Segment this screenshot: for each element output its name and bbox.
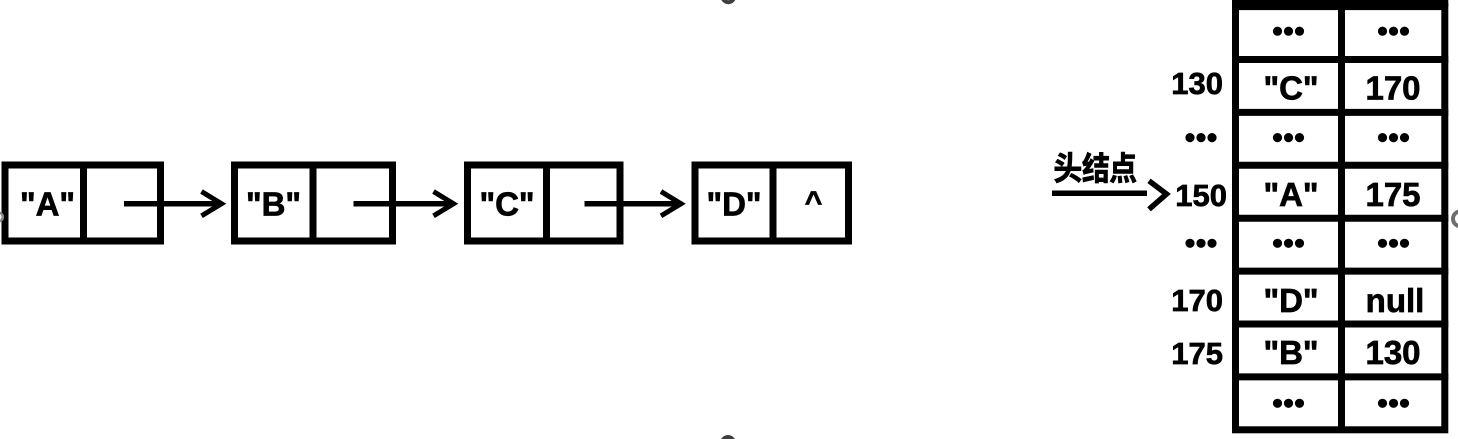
- table row3 dots col1: [1273, 133, 1304, 142]
- svg-text:130: 130: [1365, 334, 1420, 371]
- table row5 dots col2: [1378, 239, 1409, 248]
- cropped glyph left edge: [0, 213, 3, 222]
- table row8 dots col2: [1378, 399, 1409, 408]
- svg-text:^: ^: [805, 186, 823, 219]
- table row3 dots col2: [1378, 133, 1409, 142]
- wire arrow 3: [585, 192, 682, 216]
- head pointer label 头结点: [1054, 152, 1137, 184]
- svg-text:"A": "A": [1263, 176, 1318, 213]
- svg-text:null: null: [1366, 282, 1425, 319]
- svg-text:130: 130: [1171, 66, 1223, 101]
- svg-text:170: 170: [1365, 70, 1420, 107]
- wire arrow 1: [124, 192, 222, 216]
- svg-text:170: 170: [1171, 283, 1223, 318]
- table row8 dots col1: [1273, 399, 1304, 408]
- svg-text:"B": "B": [1263, 334, 1318, 371]
- svg-text:"A": "A": [20, 186, 75, 223]
- node A box: [5, 162, 161, 245]
- svg-text:"C": "C": [1263, 70, 1318, 107]
- svg-text:150: 150: [1175, 178, 1227, 213]
- cropped glyph bottom edge: [722, 437, 734, 439]
- cropped glyph right edge: [1453, 211, 1458, 226]
- address dots row5: [1185, 239, 1216, 248]
- head pointer arrow: [1052, 181, 1167, 210]
- cropped glyph top edge: [723, 0, 735, 2]
- svg-text:175: 175: [1171, 336, 1223, 371]
- table row1 dots col2: [1378, 27, 1409, 36]
- svg-text:"D": "D": [706, 186, 761, 223]
- svg-text:"C": "C": [479, 186, 534, 223]
- svg-text:"B": "B": [246, 186, 301, 223]
- svg-text:"D": "D": [1263, 282, 1318, 319]
- svg-text:175: 175: [1365, 176, 1420, 213]
- address dots row3: [1185, 133, 1216, 142]
- wire arrow 2: [354, 192, 454, 216]
- table row5 dots col1: [1273, 239, 1304, 248]
- node C box: [468, 162, 621, 245]
- table row1 dots col1: [1273, 27, 1304, 36]
- memory table grid: [1232, 3, 1448, 433]
- node D box: [695, 162, 849, 245]
- node B box: [235, 162, 393, 245]
